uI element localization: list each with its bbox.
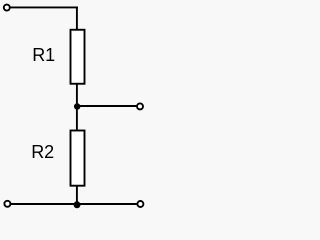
node B (bottom junction dot): [74, 201, 81, 208]
svg-text:R1: R1: [32, 45, 55, 65]
resistor R2: [71, 131, 85, 186]
wire top horizontal: [10, 6, 78, 8]
wire R2 bottom lead: [76, 186, 78, 205]
wire R2 top lead: [76, 107, 78, 131]
wire R1 top lead: [76, 7, 78, 30]
wire mid horizontal: [77, 105, 137, 107]
terminal T4 (bottom-right): [137, 201, 143, 207]
node A (junction dot): [74, 103, 81, 110]
wire R1 bottom lead: [76, 84, 78, 107]
terminal T1 (top-left input): [4, 5, 10, 11]
wire bottom horizontal: [11, 203, 137, 205]
terminal T2 (mid-right output): [137, 103, 143, 109]
terminal T3 (bottom-left): [4, 201, 10, 207]
svg-text:R2: R2: [31, 142, 54, 162]
resistor R1: [71, 30, 85, 84]
